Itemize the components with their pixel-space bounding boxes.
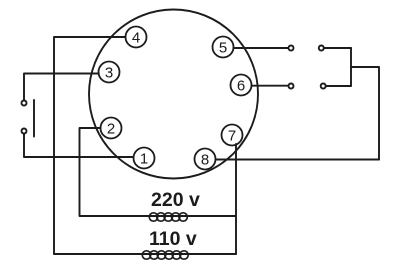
svg-text:8: 8: [201, 152, 209, 169]
switch S1 lever: [33, 100, 35, 137]
svg-text:7: 7: [228, 128, 236, 145]
wire pin2 down to 220v winding: [80, 128, 237, 216]
svg-text:5: 5: [219, 40, 227, 57]
pin 6: [231, 75, 252, 96]
tube socket outline: [89, 10, 258, 179]
svg-text:2: 2: [107, 121, 115, 138]
pin 4: [126, 27, 147, 48]
pin 1: [134, 148, 155, 169]
wire pin3 to left switch upper contact: [24, 74, 99, 101]
pin 2: [101, 118, 122, 139]
switch S1 upper contact: [22, 101, 27, 106]
wire pin7 down through taps to 110v end: [235, 144, 237, 254]
switch S2 left contact: [289, 46, 294, 51]
winding L1 220v coil: [149, 213, 187, 221]
svg-text:110 v: 110 v: [149, 228, 197, 250]
switch S1 lower contact: [22, 129, 27, 134]
svg-text:3: 3: [105, 65, 113, 82]
wire pin6 to right switch S3: [252, 85, 289, 87]
wire switch S1 to pin1: [24, 134, 134, 158]
wire pin5 to right switch S2: [234, 47, 289, 49]
winding L2 110v coil: [142, 251, 188, 259]
wire switch S2 to node: [324, 47, 351, 49]
svg-text:220 v: 220 v: [151, 189, 200, 211]
wire joining S2 and S3 outputs: [350, 48, 352, 86]
wire right node down to pin8 line: [351, 67, 379, 160]
switch S3 right contact: [321, 84, 326, 89]
pin 7: [222, 125, 243, 146]
wire pin8 to right vertical: [216, 159, 380, 161]
svg-text:4: 4: [132, 30, 140, 47]
switch S2 right contact: [319, 46, 324, 51]
wire switch S3 to node: [326, 85, 351, 87]
pin 5: [213, 37, 234, 58]
pin 8: [195, 149, 216, 170]
svg-text:1: 1: [140, 151, 148, 168]
switch S3 left contact: [289, 84, 294, 89]
wire pin4 to left down to 110v winding: [54, 37, 236, 254]
pin 3: [99, 62, 120, 83]
svg-text:6: 6: [237, 78, 245, 95]
